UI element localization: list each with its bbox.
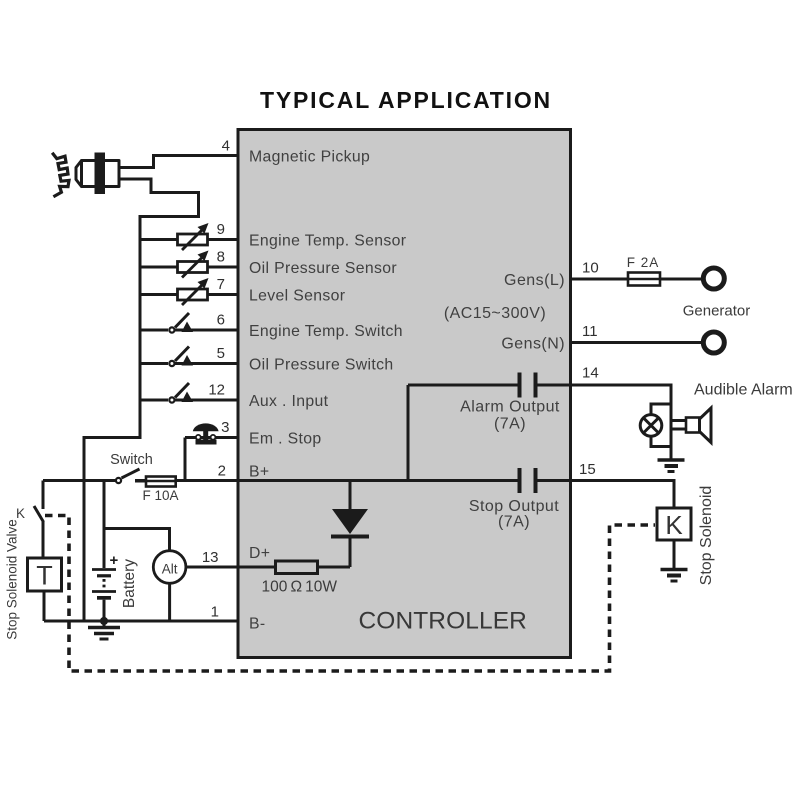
ground symbol battery	[88, 617, 120, 639]
wire T to ground row	[43, 591, 46, 621]
svg-text:Em . Stop: Em . Stop	[249, 431, 322, 448]
svg-text:B+: B+	[249, 464, 269, 481]
resistor sensor pin 8 (Oil Pressure Sensor)	[178, 251, 209, 278]
stop output contact	[520, 468, 571, 493]
magnetic pickup body MPU	[76, 161, 119, 187]
svg-text:Oil Pressure Sensor: Oil Pressure Sensor	[249, 260, 397, 277]
switch pin 6 (Engine Temp. Switch)	[168, 313, 193, 334]
svg-text:(7A): (7A)	[498, 514, 530, 531]
svg-text:D+: D+	[249, 545, 270, 562]
svg-text:B-: B-	[249, 616, 266, 633]
svg-text:T: T	[36, 561, 53, 591]
svg-text:15: 15	[579, 461, 596, 478]
magnetic pickup collar	[95, 153, 106, 195]
wire pin 3 em-stop	[185, 436, 239, 439]
svg-text:Oil Pressure Switch: Oil Pressure Switch	[249, 357, 393, 374]
svg-text:Magnetic Pickup: Magnetic Pickup	[249, 149, 370, 166]
svg-text:Alt: Alt	[162, 562, 178, 577]
g wires: left pins	[43, 156, 239, 622]
switch pin 12 (Aux. Input)	[168, 383, 193, 404]
svg-text:Engine Temp. Sensor: Engine Temp. Sensor	[249, 233, 406, 250]
pin numbers right	[579, 260, 599, 479]
svg-text:Switch: Switch	[110, 452, 153, 468]
svg-text:K: K	[665, 510, 683, 540]
switch pin 5 (Oil Pressure Switch)	[168, 347, 193, 368]
indicator lamp	[640, 415, 662, 437]
fuse F10A	[135, 477, 176, 487]
svg-text:100 Ω 10W: 100 Ω 10W	[262, 579, 338, 596]
svg-text:4: 4	[222, 138, 230, 155]
svg-text:1: 1	[211, 604, 219, 621]
svg-text:13: 13	[202, 549, 219, 566]
internal riser to alarm contact	[407, 385, 410, 481]
wire pin 5	[140, 362, 239, 365]
svg-text:3: 3	[221, 419, 229, 436]
wire pin 2 B+ row	[43, 479, 116, 482]
relay coil K box	[657, 508, 691, 540]
svg-text:12: 12	[208, 382, 225, 399]
svg-text:Gens(L): Gens(L)	[504, 272, 565, 289]
controller pin labels left	[249, 149, 406, 633]
svg-text:K: K	[16, 506, 25, 521]
internal B+ line	[239, 479, 408, 482]
ground symbol alarm	[658, 460, 685, 472]
wire pin 6	[140, 329, 239, 332]
power switch on B+	[116, 469, 140, 483]
indicator lamp loop	[651, 404, 671, 447]
svg-text:10: 10	[582, 260, 599, 277]
generator terminal L	[703, 268, 724, 289]
wire alternator to ground row	[168, 583, 171, 621]
fuse F2A	[628, 273, 703, 286]
generator terminal N	[703, 332, 724, 353]
magnetic pickup gear	[52, 153, 69, 197]
svg-text:Gens(N): Gens(N)	[501, 336, 565, 353]
svg-text:Audible Alarm: Audible Alarm	[694, 382, 793, 399]
wire pin 11	[571, 341, 704, 344]
svg-text:5: 5	[217, 345, 225, 362]
diode D1	[318, 481, 370, 568]
speaker / horn	[671, 408, 711, 443]
wire pin 9	[140, 238, 239, 241]
ground symbol K	[661, 570, 688, 582]
wire pin 12	[140, 399, 239, 402]
alarm output contact	[520, 373, 571, 398]
wire pickup to sensor bus	[84, 179, 199, 621]
svg-text:Stop Output: Stop Output	[469, 498, 559, 515]
wire pin 15 to relay coil	[571, 481, 675, 509]
internal alarm feed	[408, 384, 518, 387]
svg-text:2: 2	[218, 463, 226, 480]
resistor 100ohm 10W	[276, 561, 318, 574]
controller U1 box	[238, 130, 571, 658]
wire pin 1 B- ground row	[44, 620, 239, 623]
svg-text:Alarm Output: Alarm Output	[460, 399, 560, 416]
svg-text:Aux . Input: Aux . Input	[249, 393, 329, 410]
svg-text:Generator: Generator	[683, 303, 751, 320]
svg-text:+: +	[110, 552, 119, 569]
battery	[92, 481, 116, 622]
resistor sensor pin 9 (Engine Temp. Sensor)	[178, 223, 209, 250]
wire pin 4	[119, 156, 239, 168]
emergency stop button pin 3	[193, 423, 219, 444]
svg-text:Engine Temp. Switch: Engine Temp. Switch	[249, 323, 403, 340]
dashed mechanical link K	[45, 516, 655, 672]
svg-text:11: 11	[582, 323, 598, 340]
svg-text:F 2A: F 2A	[627, 255, 660, 270]
svg-text:Stop Solenoid Valve: Stop Solenoid Valve	[5, 519, 20, 640]
svg-text:F 10A: F 10A	[142, 488, 178, 503]
wire pin 13 D+	[187, 566, 240, 569]
internal stop feed	[408, 479, 518, 482]
wire resistor to D+	[239, 566, 276, 569]
svg-text:Battery: Battery	[121, 559, 138, 608]
wire pin 8	[140, 266, 239, 269]
resistor sensor pin 7 (Level Sensor)	[178, 278, 209, 305]
svg-text:7: 7	[217, 276, 225, 293]
pin numbers left	[202, 138, 230, 621]
wire em-stop drop to B+	[184, 438, 187, 481]
svg-text:CONTROLLER: CONTROLLER	[359, 608, 527, 635]
svg-text:Stop Solenoid: Stop Solenoid	[698, 486, 715, 586]
relay contact K'	[34, 481, 44, 559]
solenoid valve T box	[28, 558, 62, 591]
svg-text:Level Sensor: Level Sensor	[249, 288, 345, 305]
svg-text:14: 14	[582, 365, 599, 382]
wire K to ground	[673, 540, 676, 568]
svg-text:6: 6	[217, 312, 225, 329]
svg-text:(AC15~300V): (AC15~300V)	[444, 305, 546, 322]
svg-text:8: 8	[217, 249, 225, 266]
wire pin 10	[571, 278, 629, 281]
svg-text:TYPICAL APPLICATION: TYPICAL APPLICATION	[260, 87, 552, 113]
alternator Alt	[153, 551, 186, 584]
svg-text:9: 9	[217, 221, 225, 238]
wire pin 7	[140, 293, 239, 296]
svg-text:(7A): (7A)	[494, 416, 526, 433]
controller pin labels right	[444, 272, 565, 531]
wire battery to alternator	[104, 529, 170, 552]
wire pin 14 to alarm	[571, 385, 672, 459]
